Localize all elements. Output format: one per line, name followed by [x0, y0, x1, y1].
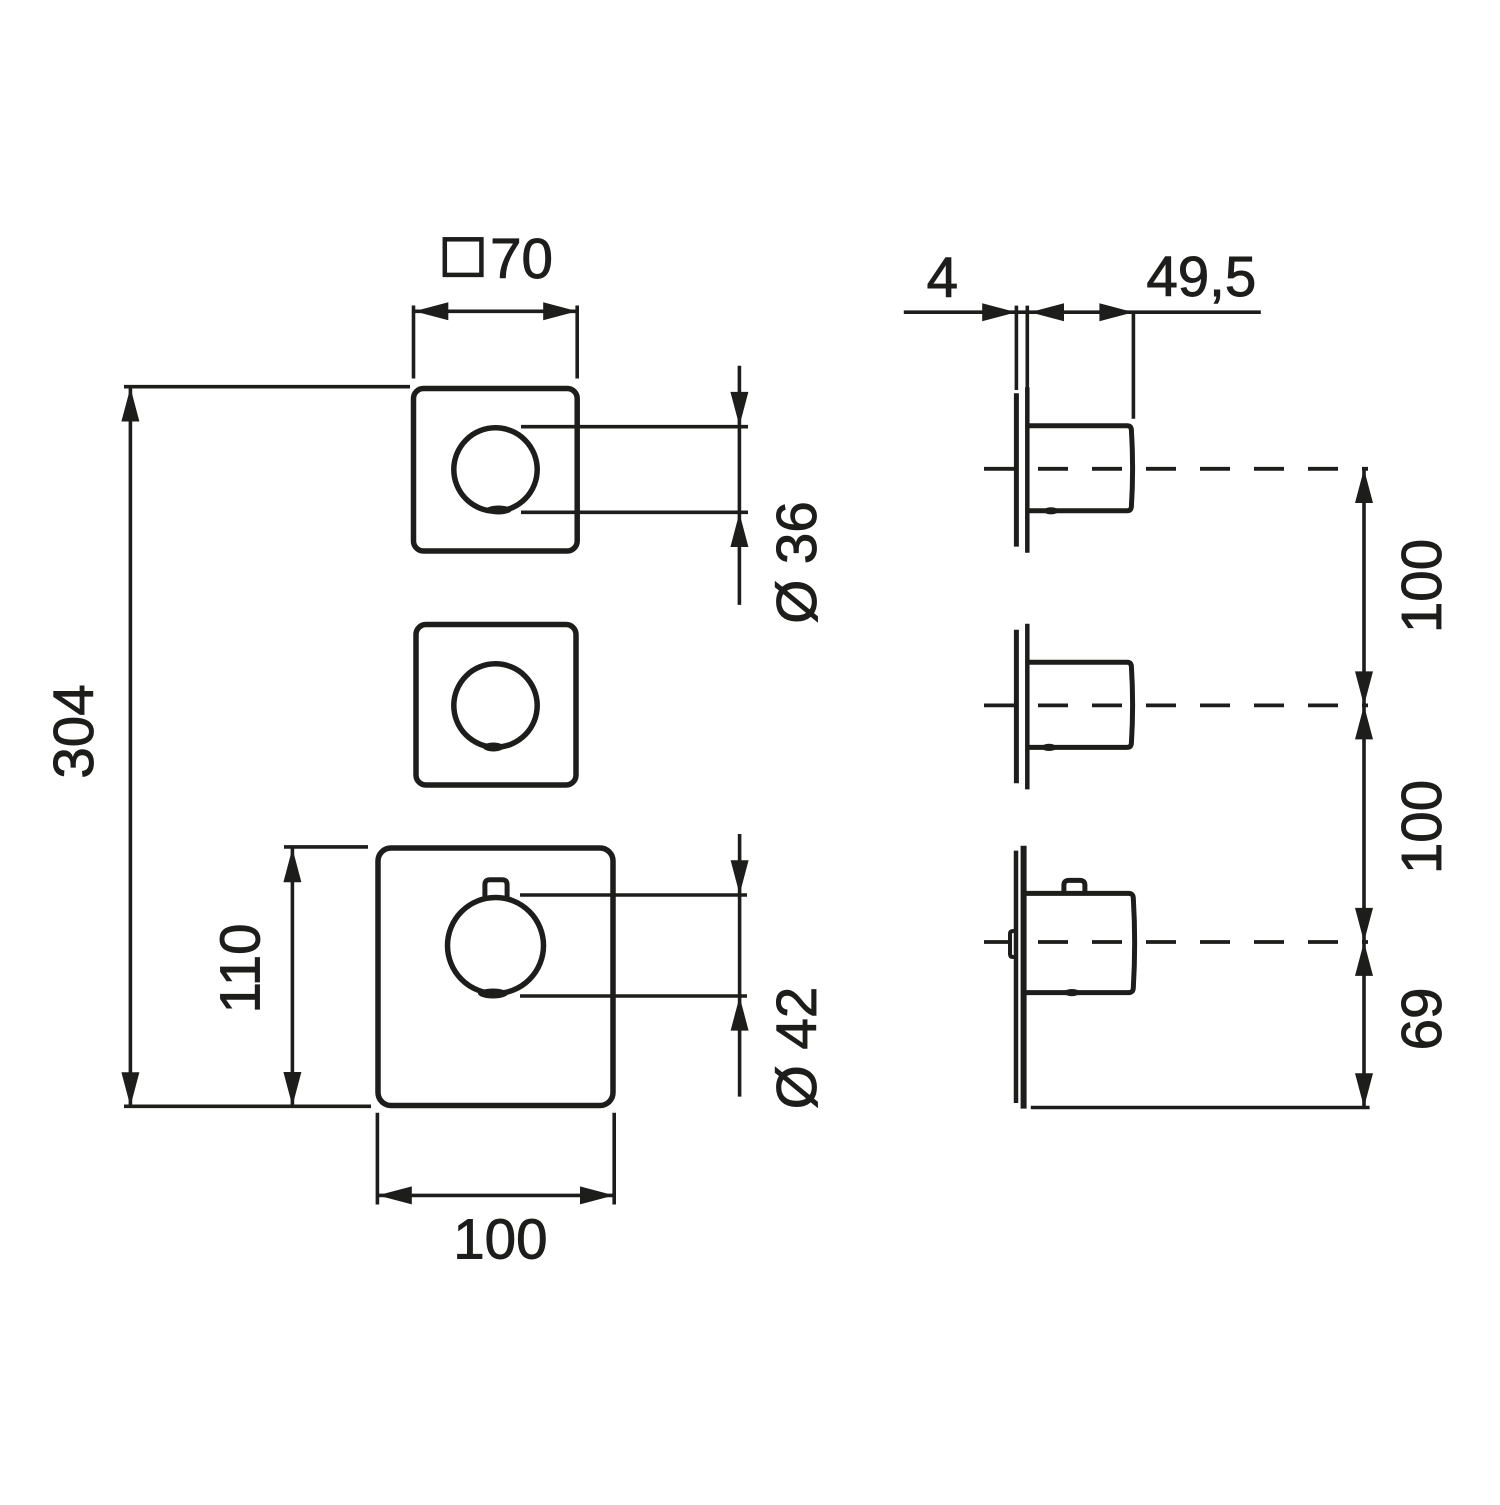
knob indicator notch 3: [478, 989, 508, 999]
right column arrowhead down at bottom: [1355, 1073, 1373, 1107]
dimension dia42 top extension line: [520, 893, 747, 897]
right column arrowhead down at C: [1355, 908, 1373, 942]
side view C safety button tab: [1064, 880, 1085, 895]
dimension 304 top extension line: [124, 385, 410, 389]
side view B indicator blob: [1042, 744, 1057, 751]
dimension 70 extension line right: [575, 306, 579, 379]
dimension 110 arrowhead bottom: [283, 1072, 301, 1106]
dimension 100 bottom dimension line: [378, 1194, 614, 1198]
dimension dia36 arrowhead bottom: [730, 513, 748, 547]
dimension dia42 bottom extension line: [520, 994, 747, 998]
dimension dia42 dimension line: [738, 834, 742, 1097]
dimension 70 extension line left: [412, 306, 416, 379]
centerline valve B: [984, 704, 1368, 708]
dimension dia42 arrowhead top: [731, 860, 749, 894]
dimension 100 bottom extension line left: [376, 1113, 380, 1205]
dimension 110 top extension line: [284, 845, 368, 849]
right column bottom extension line: [1031, 1106, 1370, 1110]
dimension dia36 arrowhead top: [730, 392, 748, 426]
side view B wall plate front edge: [1025, 624, 1030, 790]
dimension 70 arrowhead right: [543, 302, 577, 320]
dimension 304 arrowhead bottom: [121, 1072, 139, 1106]
centerline valve C: [984, 940, 1368, 944]
dimension 100 bottom arrowhead left: [378, 1186, 412, 1204]
dimension 4 and 49.5 dimension line: [904, 310, 1261, 314]
dimension 100 bottom extension line right: [612, 1113, 616, 1205]
right column arrowhead up at B: [1355, 705, 1373, 739]
svg-text:4: 4: [927, 246, 958, 309]
centerline valve A: [984, 467, 1368, 471]
dimension 4 arrowhead left: [982, 303, 1016, 321]
dimension 304 dimension line: [129, 388, 133, 1107]
escutcheon square 3 (bottom front view): [378, 848, 613, 1106]
dimension dia36 top extension line: [521, 425, 748, 429]
dimension 4 extension line back: [1015, 306, 1019, 390]
dimension 49.5 arrowhead right: [1099, 303, 1133, 321]
side view A wall plate back edge: [1014, 393, 1019, 546]
dimension 304 bottom extension line: [124, 1105, 371, 1109]
dimension 49.5 arrowhead left: [1030, 303, 1064, 321]
svg-text:70: 70: [490, 227, 553, 290]
dimension dia42 arrowhead bottom: [731, 997, 749, 1031]
svg-text:110: 110: [208, 923, 271, 1013]
knob circle 3: [448, 898, 544, 994]
knob indicator notch 1: [486, 506, 512, 515]
svg-text:Ø 42: Ø 42: [765, 987, 828, 1110]
svg-text:100: 100: [453, 1207, 547, 1270]
knob circle 1: [454, 428, 537, 511]
dimension 110 arrowhead top: [283, 848, 301, 882]
dimension square-70 symbol: [445, 239, 482, 275]
side view C indicator blob: [1064, 989, 1080, 996]
knob circle 2: [454, 664, 537, 747]
svg-text:100: 100: [1390, 539, 1453, 633]
svg-text:69: 69: [1390, 988, 1453, 1051]
dimension 100 bottom arrowhead right: [580, 1186, 614, 1204]
dimension dia36 dimension line: [738, 366, 742, 605]
dimension 49.5 extension line right: [1132, 312, 1136, 419]
side view A handle cylinder: [1027, 426, 1133, 511]
knob indicator notch 2: [483, 743, 504, 752]
side view A indicator blob: [1044, 507, 1059, 514]
side view C wall plate front edge: [1021, 846, 1027, 1109]
safety button tab 3: [485, 880, 507, 899]
right column dimension line: [1362, 469, 1366, 1107]
right column arrowhead down at B: [1355, 671, 1373, 705]
svg-text:100: 100: [1390, 780, 1453, 874]
svg-text:Ø 36: Ø 36: [765, 501, 828, 624]
side view B wall plate back edge: [1014, 630, 1019, 783]
dimension 70 dimension line: [414, 309, 577, 313]
svg-text:304: 304: [42, 684, 105, 778]
side view C wall plate back edge: [1014, 851, 1019, 1103]
escutcheon square 2 (middle front view): [416, 625, 576, 786]
dimension 4 extension line front: [1026, 306, 1030, 390]
dimension 304 arrowhead top: [121, 388, 139, 422]
side view C handle cylinder: [1023, 893, 1135, 992]
side view B handle cylinder: [1027, 662, 1133, 747]
side view A wall plate front edge: [1025, 387, 1030, 553]
right column arrowhead up at A: [1355, 469, 1373, 503]
right column arrowhead up at C: [1355, 942, 1373, 976]
dimension dia36 bottom extension line: [521, 510, 748, 514]
dimension 110 dimension line: [291, 848, 295, 1106]
escutcheon square 1 (top front view): [414, 389, 578, 552]
dimension 70 arrowhead left: [414, 302, 448, 320]
side view C spindle bump: [1010, 931, 1016, 957]
svg-text:49,5: 49,5: [1146, 245, 1256, 308]
